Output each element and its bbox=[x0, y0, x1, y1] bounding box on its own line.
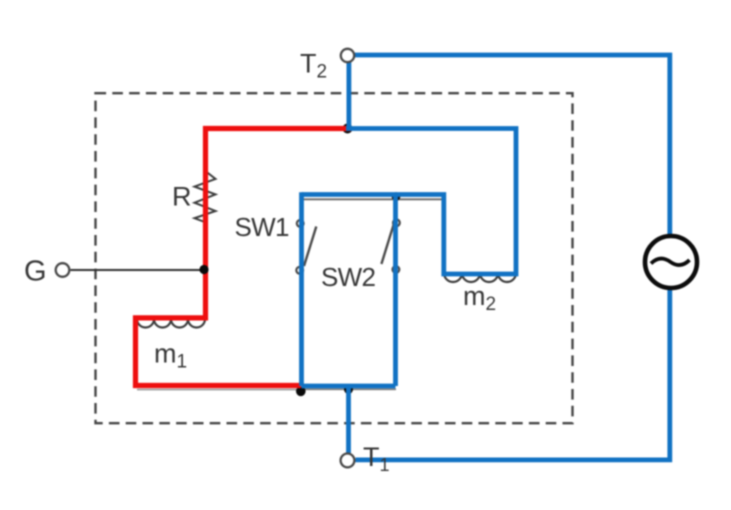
wire blue SW2 vertical bbox=[393, 195, 398, 387]
wire blue AC source bottom to T1 bbox=[356, 289, 670, 460]
node junction at T2 branch bbox=[343, 124, 353, 134]
svg-text:R: R bbox=[172, 182, 192, 212]
wire under middle horizontal (thin gray) bbox=[302, 198, 443, 200]
inductor m2 coil arcs bbox=[444, 273, 516, 282]
terminal T2 circle bbox=[341, 49, 354, 62]
wire blue SW1 vertical bbox=[299, 192, 304, 386]
svg-text:SW1: SW1 bbox=[235, 212, 289, 242]
resistor R zigzag bbox=[195, 172, 216, 223]
wire under switch bottom bus (thin gray) bbox=[303, 388, 396, 390]
svg-text:SW2: SW2 bbox=[321, 262, 375, 292]
node junction at G tap bbox=[199, 265, 208, 274]
switch SW1 blade bbox=[304, 227, 316, 267]
dashed enclosure border bbox=[96, 93, 573, 423]
wire blue switch bottom bus bbox=[302, 384, 396, 389]
wire blue outer loop top to AC source bbox=[355, 55, 670, 237]
switch SW2 blade bbox=[381, 223, 394, 264]
node junction T1 branch bbox=[344, 385, 353, 394]
wire blue T2 drop bbox=[346, 62, 351, 131]
wire under bottom horizontal (thin gray) bbox=[137, 389, 298, 391]
terminal G circle bbox=[56, 263, 70, 277]
switch SW2 contact circles bbox=[393, 219, 400, 226]
node junction under SW2 top (black dot) bbox=[392, 192, 401, 201]
wire G lead (thin black) bbox=[71, 269, 207, 271]
wire blue m2 branch bbox=[302, 129, 517, 275]
node junction red-blue meet bbox=[296, 387, 306, 397]
wire blue T1 riser bbox=[346, 386, 351, 453]
wire red path m1 branch bbox=[136, 129, 352, 386]
AC source U1 bbox=[645, 236, 697, 288]
switch SW1 contact circles bbox=[297, 220, 304, 227]
svg-text:G: G bbox=[24, 256, 47, 288]
inductor m1 coil arcs bbox=[137, 319, 205, 328]
terminal T1 circle bbox=[341, 454, 355, 468]
